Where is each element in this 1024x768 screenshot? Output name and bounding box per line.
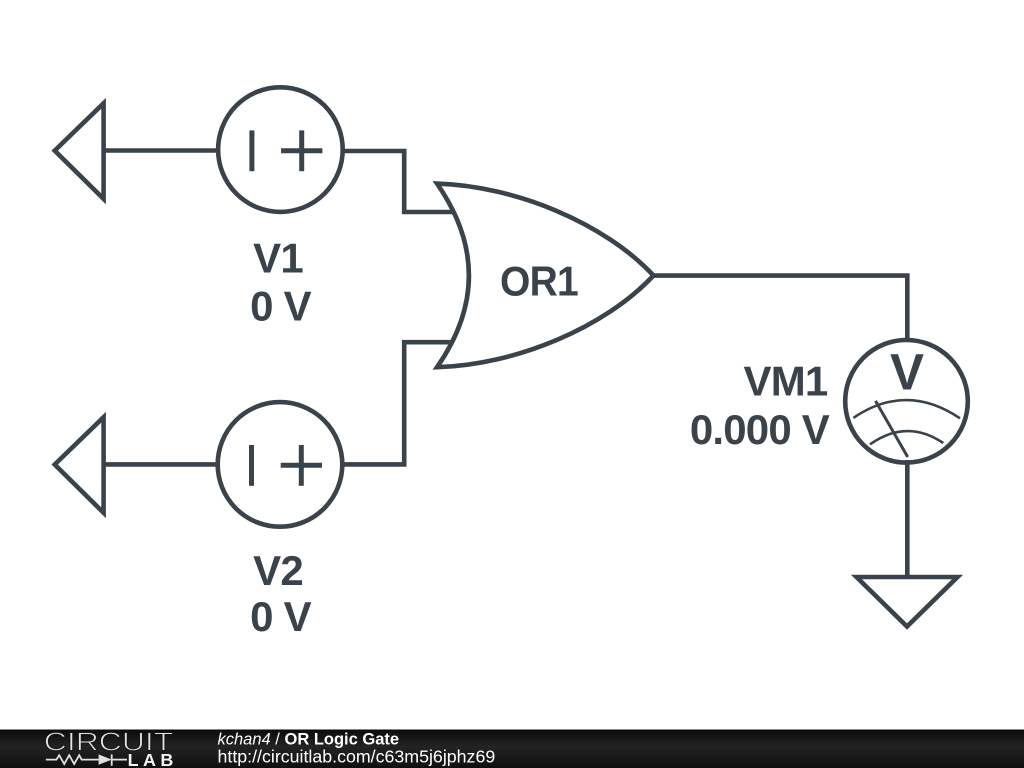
footer bar	[0, 730, 1024, 768]
circuitlab logo resistor-diode glyph	[46, 754, 127, 765]
svg-text:V2: V2	[253, 547, 303, 594]
svg-text:0 V: 0 V	[250, 593, 311, 640]
svg-text:OR1: OR1	[500, 257, 578, 304]
or-gate OR1 body	[437, 184, 654, 368]
voltage source V1	[218, 87, 343, 212]
wire V2 to OR1 input 2	[342, 342, 457, 464]
wire flag B to V2	[104, 462, 219, 467]
wire VM1 to ground	[905, 460, 910, 577]
ground	[857, 577, 958, 627]
node B input flag	[55, 417, 104, 513]
svg-text:V: V	[890, 343, 924, 400]
wire OR1 output to VM1	[651, 276, 907, 341]
node A input flag	[55, 103, 104, 199]
svg-text:VM1: VM1	[744, 358, 828, 405]
voltage source V2	[218, 402, 343, 527]
svg-text:0.000 V: 0.000 V	[690, 406, 830, 453]
wire flag A to V1	[104, 148, 219, 153]
svg-text:http://circuitlab.com/c63m5j6j: http://circuitlab.com/c63m5j6jphz69	[218, 746, 496, 766]
svg-text:V1: V1	[253, 235, 303, 282]
svg-text:0 V: 0 V	[250, 283, 311, 330]
voltmeter VM1	[845, 340, 968, 463]
svg-text:LAB: LAB	[128, 750, 174, 768]
wire V1 to OR1 input 1	[343, 151, 457, 212]
